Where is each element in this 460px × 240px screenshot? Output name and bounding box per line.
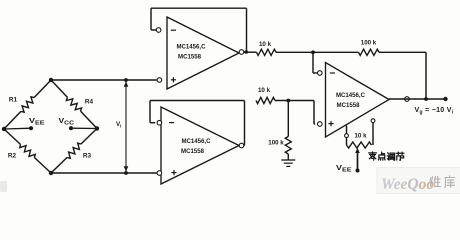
svg-text:WeeQoo: WeeQoo (381, 176, 434, 193)
svg-text:MC1456,C: MC1456,C (182, 138, 211, 145)
svg-text:10 k: 10 k (354, 133, 367, 140)
svg-text:R1: R1 (9, 97, 18, 104)
svg-text:10 k: 10 k (258, 87, 271, 94)
svg-text:MC1558: MC1558 (181, 148, 204, 155)
svg-text:10 k: 10 k (259, 41, 272, 48)
svg-text:MC1558: MC1558 (337, 102, 360, 109)
svg-text:100 k: 100 k (268, 140, 284, 147)
svg-text:R4: R4 (85, 99, 94, 106)
svg-text:MC1558: MC1558 (178, 53, 201, 60)
svg-text:R2: R2 (8, 153, 17, 160)
svg-text:MC1456,C: MC1456,C (177, 43, 206, 50)
svg-text:100 k: 100 k (361, 40, 377, 47)
svg-text:R3: R3 (83, 153, 92, 160)
svg-text:MC1456,C: MC1456,C (336, 92, 365, 99)
